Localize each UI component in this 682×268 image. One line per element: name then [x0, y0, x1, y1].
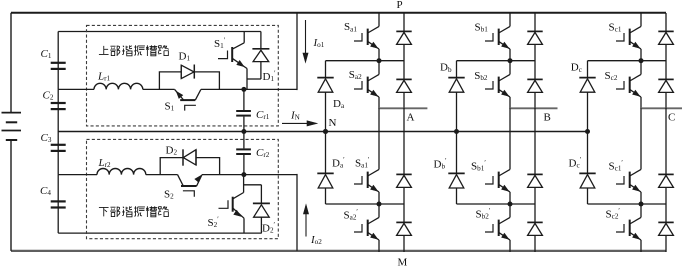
- IGBT Sc2: [640, 61, 642, 74]
- wire P riser (Io1 branch): [296, 13, 298, 90]
- diode antiparallel of Sc1': [665, 156, 667, 174]
- wire upper midpoint link phase B: [457, 60, 536, 62]
- lower tank Chinese label (xia bu xie zhen cao lu): [99, 207, 109, 216]
- wire phase C output column down: [640, 108, 642, 156]
- wire phase B output column down: [509, 108, 511, 156]
- wire D2' cathode link: [244, 184, 262, 186]
- svg-text:P: P: [397, 0, 403, 11]
- upper resonant tank dashed box: [87, 25, 279, 126]
- arrow IN current: [282, 122, 308, 124]
- svg-text:Db′: Db′: [434, 157, 448, 171]
- wire phase B diode column down: [534, 108, 536, 156]
- wire Lr2 to S2: [146, 174, 178, 176]
- arrow Io1 current: [305, 20, 307, 61]
- wire S1 to node: [201, 88, 247, 90]
- capacitor C3: [51, 144, 66, 146]
- wire D1' anode link: [247, 78, 261, 80]
- svg-text:C: C: [668, 112, 675, 124]
- wire cap-chain top corner to C1: [57, 32, 59, 90]
- node clamp-N junction dot phase A: [323, 129, 328, 134]
- node N dot: [323, 129, 328, 134]
- IGBT Sa1': [378, 156, 380, 169]
- wire cap-junction to Lr2: [58, 174, 97, 176]
- capacitor C1: [51, 62, 66, 64]
- wire lower midpoint link phase C: [588, 203, 667, 205]
- IGBT S2 (auxiliary switch, horizontal, mirrored): [178, 175, 184, 186]
- svg-text:A: A: [407, 112, 415, 124]
- wire chain C3-C4: [57, 132, 59, 175]
- diode D2': [260, 185, 262, 204]
- diode antiparallel of Sa2: [403, 61, 405, 79]
- diode antiparallel of Sc1: [665, 13, 667, 31]
- IGBT Sb1': [509, 156, 511, 169]
- node lower tank junction: [241, 172, 246, 177]
- wire D1 bypass right: [194, 72, 219, 90]
- wire lower midpoint link phase A: [326, 203, 405, 205]
- diode antiparallel of Sb1: [534, 13, 536, 31]
- inductor Lr2: [97, 169, 146, 175]
- wire D2 bypass left: [160, 158, 183, 175]
- upper tank Chinese label (shang bu xie zhen cao lu): [99, 46, 109, 55]
- wire phase C diode column upper-join: [665, 108, 667, 109]
- IGBT Sb2: [509, 61, 511, 74]
- battery E (DC source): [2, 112, 22, 114]
- wire phase A diode column down: [403, 108, 405, 156]
- diode D1': [260, 32, 262, 49]
- svg-text:M: M: [398, 257, 408, 268]
- node Sc1'-Sc2' midpoint dot: [639, 202, 644, 207]
- wire M riser (Io2 branch): [296, 174, 298, 251]
- wire D1 bypass left: [159, 72, 181, 90]
- clamp diode Db: [456, 61, 458, 78]
- svg-text:N: N: [329, 117, 337, 129]
- wire output stub phase A: [379, 107, 427, 109]
- IGBT Sa1: [378, 13, 380, 26]
- svg-text:B: B: [544, 112, 551, 124]
- wire node to M riser: [244, 174, 297, 176]
- P bus rail wire: [11, 12, 666, 14]
- diode D2: [182, 149, 184, 165]
- diode antiparallel of Sa1': [403, 156, 405, 174]
- capacitor C4: [51, 200, 66, 202]
- node Sb1-Sb2 midpoint dot: [508, 58, 513, 63]
- diode antiparallel of Sa2': [403, 204, 405, 222]
- wire lower midpoint link phase B: [457, 203, 536, 205]
- wire left bus top: [10, 13, 12, 113]
- capacitor C2: [51, 102, 66, 104]
- clamp diode Dc: [587, 61, 589, 78]
- clamp diode Db': [456, 132, 458, 174]
- IGBT Sa2: [378, 61, 380, 74]
- node Sc1-Sc2 midpoint dot: [639, 58, 644, 63]
- diode antiparallel of Sa1: [403, 13, 405, 31]
- clamp diode Dc': [587, 132, 589, 174]
- wire top tank line: [58, 31, 261, 33]
- IGBT Sc2': [640, 204, 642, 217]
- IGBT Sb1: [509, 13, 511, 26]
- node Sa1'-Sa2' midpoint dot: [377, 202, 382, 207]
- node clamp-N junction dot phase B: [454, 129, 459, 134]
- wire chain bottom: [57, 175, 59, 234]
- wire upper midpoint link phase A: [326, 60, 405, 62]
- wire left bus bottom: [10, 140, 12, 251]
- IGBT S1 (auxiliary switch, horizontal): [175, 89, 184, 100]
- node clamp-N junction dot phase C: [585, 129, 590, 134]
- wire node to P riser: [247, 88, 297, 90]
- capacitor Cr2: [243, 132, 245, 149]
- wire output stub phase C: [641, 107, 682, 109]
- node Sa1-Sa2 midpoint dot: [377, 58, 382, 63]
- wire phase A output column down: [378, 108, 380, 156]
- IGBT Sa2': [378, 204, 380, 217]
- IGBT S2' (vertical aux switch): [243, 175, 245, 193]
- wire chain mid: [57, 89, 59, 131]
- wire phase B diode column upper-join: [534, 108, 536, 109]
- clamp diode Da: [325, 61, 327, 78]
- lower resonant tank dashed box: [87, 139, 279, 238]
- clamp diode Da': [325, 132, 327, 174]
- wire phase A diode column upper-join: [403, 108, 405, 109]
- wire output stub phase B: [510, 107, 558, 109]
- wire upper midpoint link phase C: [588, 60, 667, 62]
- svg-text:D2′: D2′: [262, 221, 276, 235]
- diode D1: [180, 65, 182, 78]
- node upper tank junction: [241, 87, 246, 92]
- wire S2 to node: [202, 174, 244, 176]
- diode antiparallel of Sb1': [534, 156, 536, 174]
- inductor Lr1: [94, 83, 143, 89]
- wire phase C diode column down: [665, 108, 667, 156]
- M bus rail wire: [11, 250, 666, 252]
- node Sb1'-Sb2' midpoint dot: [508, 202, 513, 207]
- IGBT Sb2': [509, 204, 511, 217]
- svg-text:D1′: D1′: [263, 70, 277, 84]
- IGBT S1' (vertical aux switch): [243, 32, 245, 43]
- diode antiparallel of Sc2': [665, 204, 667, 222]
- diode antiparallel of Sb2': [534, 204, 536, 222]
- wire D2 bypass right: [196, 158, 220, 175]
- diode antiparallel of Sc2: [665, 61, 667, 79]
- wire Lr1 to S1: [143, 88, 175, 90]
- diode antiparallel of Sb2: [534, 61, 536, 79]
- node Cr junction on N bus: [241, 129, 246, 134]
- wire cap-junction to Lr1: [58, 88, 94, 90]
- IGBT Sc1': [640, 156, 642, 169]
- wire bottom tank line: [58, 232, 262, 234]
- arrow Io2 current: [305, 206, 307, 237]
- IGBT Sc1: [640, 13, 642, 26]
- capacitor Cr1: [243, 89, 245, 110]
- N bus wire: [58, 131, 587, 133]
